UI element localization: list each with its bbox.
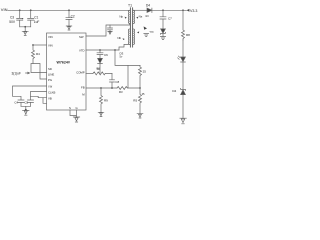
resistor R6 (93, 66, 112, 75)
svg-text:50V: 50V (9, 20, 16, 24)
node junction dot C7 (162, 9, 164, 11)
label Ns2 arrow (137, 31, 139, 33)
svg-text:I.W: I.W (48, 84, 53, 88)
wire cap join (20, 27, 31, 31)
resistor R4 (32, 45, 41, 64)
wire snub net vertical and horizontal (115, 50, 140, 65)
label Np with arrow (119, 15, 126, 19)
node junction dot C3 (19, 9, 21, 11)
op-amp U1 controller IC box (47, 33, 87, 110)
node junction dot C2 (68, 9, 70, 11)
capacitor C4 (14, 100, 24, 106)
svg-text:Ns: Ns (139, 15, 143, 19)
wire COMP pin (86, 72, 93, 74)
ground R5 (137, 114, 143, 118)
svg-text:vcc: vcc (150, 29, 155, 33)
svg-text:SD: SD (48, 67, 52, 71)
svg-text:R4: R4 (36, 52, 40, 56)
wire pin7 stub (43, 98, 47, 104)
capacitor C1 (28, 10, 40, 27)
svg-text:VB: VB (48, 96, 52, 100)
resistor R5 vertical (133, 88, 145, 114)
capacitor C3 (9, 10, 23, 27)
svg-text:Nb: Nb (117, 36, 121, 40)
svg-text:VIN: VIN (1, 7, 8, 12)
resistor R8 (182, 10, 191, 40)
svg-text:1uF: 1uF (34, 20, 40, 24)
svg-text:C8: C8 (115, 80, 119, 84)
net label SD/2A with arrow (12, 72, 30, 76)
svg-text:D4: D4 (146, 4, 150, 8)
label Nb with arrow (117, 36, 124, 40)
wire SW pin to transformer primary bottom (86, 24, 130, 37)
diode D4 output rectifier (145, 4, 186, 18)
node junction dot R4 top (32, 44, 34, 46)
svg-text:3(1)uF: 3(1)uF (12, 72, 21, 76)
ground C2 (66, 26, 72, 30)
transformer primary winding Np (129, 10, 130, 23)
svg-text:LINE: LINE (48, 73, 54, 77)
capacitor C7 (160, 10, 172, 28)
svg-text:R5: R5 (133, 98, 137, 102)
svg-text:G: G (76, 106, 78, 110)
wire pin6 left (31, 92, 47, 98)
wire secondary top to output (133, 9, 147, 11)
svg-text:VIN: VIN (48, 35, 53, 39)
wire staircase to aux winding (119, 44, 130, 50)
svg-text:PG: PG (48, 78, 52, 82)
diode zener symbol (181, 88, 186, 118)
svg-text:C7: C7 (168, 17, 172, 21)
svg-text:D4: D4 (172, 89, 176, 93)
capacitor C8 (110, 73, 120, 88)
node junction dot C6 top (99, 49, 101, 51)
node junction dot R8 (182, 9, 184, 11)
vcc tap diode mark (144, 26, 147, 29)
LED D2 (178, 40, 186, 89)
label Ns with arrow (136, 15, 143, 19)
svg-text:+: + (22, 17, 24, 21)
resistor R7 vertical (139, 65, 147, 88)
node junction dot C1 (30, 9, 32, 11)
wire pin2 left stub (33, 44, 47, 46)
transformer secondary winding Ns (133, 10, 134, 23)
svg-text:V3.3: V3.3 (190, 9, 197, 13)
capacitor C6 (97, 50, 108, 58)
ground D5 (160, 37, 165, 40)
svg-text:R6: R6 (97, 66, 101, 70)
resistor R9 to ground (100, 88, 109, 112)
transformer core (130, 8, 132, 47)
diode D6 vertical (97, 58, 102, 73)
node junction dot C8 bottom (111, 87, 113, 89)
ground snubber cap (108, 31, 112, 34)
node junction dot R chain (139, 87, 141, 89)
svg-text:COMP: COMP (76, 71, 85, 75)
capacitor C5 (24, 96, 33, 106)
svg-text:R8: R8 (186, 33, 190, 37)
wire pin5 long left (13, 86, 47, 100)
svg-text:T1: T1 (128, 3, 132, 7)
ground R9 (98, 112, 104, 116)
wire top rail primary (8, 9, 130, 11)
svg-text:25: 25 (143, 69, 147, 73)
wire FB pin row (86, 87, 117, 89)
svg-text:C6: C6 (104, 53, 108, 57)
transformer vcc winding Ns2 (133, 29, 134, 44)
ground vcc tap (144, 34, 149, 37)
wire IC bottom pins to ground (70, 110, 77, 117)
wire routing loop left of IC (31, 64, 47, 80)
svg-text:CLKB: CLKB (48, 91, 55, 95)
svg-text:C5: C5 (24, 101, 28, 105)
svg-text:R3: R3 (119, 90, 123, 94)
resistor R3 horizontal (117, 87, 140, 95)
svg-text:VIN: VIN (48, 44, 53, 48)
svg-text:Np: Np (119, 15, 123, 19)
ground output chain (180, 118, 187, 124)
svg-text:VTD: VTD (79, 48, 85, 52)
svg-text:1N: 1N (145, 14, 148, 18)
capacitor snubber on primary return (108, 25, 113, 31)
svg-text:W7624#: W7624# (57, 61, 70, 65)
svg-text:C4: C4 (14, 101, 18, 105)
diode D5 zener to ground (161, 29, 166, 37)
svg-text:C2: C2 (71, 15, 75, 19)
ground C4 C5 (23, 110, 29, 115)
node junction dot snub net (114, 49, 116, 51)
node junction dot R9 top (100, 87, 102, 89)
capacitor C2 (66, 10, 75, 26)
svg-text:SW: SW (79, 35, 84, 39)
ground IC (73, 117, 79, 122)
wire aux return vertical (127, 65, 129, 88)
ground input caps (22, 31, 28, 35)
wire VTD pin row (86, 49, 119, 51)
svg-text:R9: R9 (104, 98, 108, 102)
svg-text:S: S (69, 106, 71, 110)
transformer aux winding Nb (129, 29, 130, 44)
svg-text:FB: FB (81, 86, 85, 90)
node output arrow V3.3 (187, 9, 198, 13)
wire caps join bottom (21, 106, 31, 109)
